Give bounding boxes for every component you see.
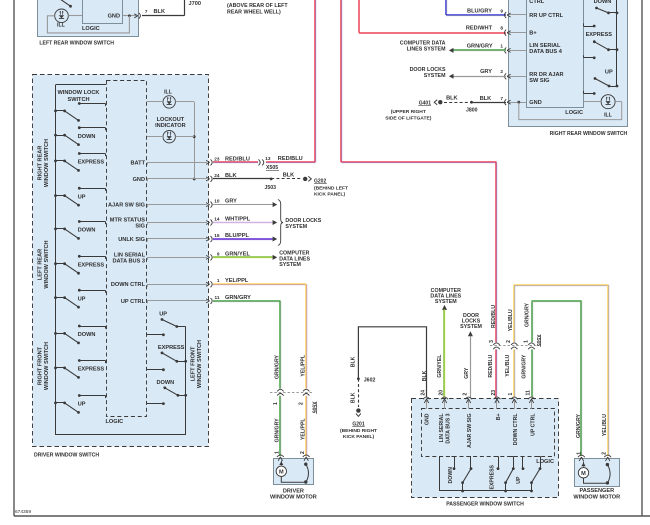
svg-text:WINDOW MOTOR: WINDOW MOTOR <box>573 494 620 500</box>
svg-text:3: 3 <box>489 340 495 343</box>
svg-text:SIDE OF LIFTGATE): SIDE OF LIFTGATE) <box>385 115 431 121</box>
svg-text:7: 7 <box>500 96 503 101</box>
svg-text:SWITCH: SWITCH <box>67 97 89 103</box>
svg-text:LOCKOUT: LOCKOUT <box>157 117 185 123</box>
svg-text:X505: X505 <box>535 335 541 347</box>
svg-text:11: 11 <box>525 390 531 396</box>
svg-text:SYSTEM: SYSTEM <box>424 73 446 79</box>
svg-text:1: 1 <box>524 340 530 343</box>
svg-text:DOWN: DOWN <box>78 332 96 338</box>
svg-text:PASSENGER: PASSENGER <box>579 488 614 494</box>
svg-text:YEL/PPL: YEL/PPL <box>300 354 306 376</box>
svg-text:BLK: BLK <box>283 173 295 179</box>
svg-text:RIGHT REAR WINDOW SWITCH: RIGHT REAR WINDOW SWITCH <box>550 131 628 137</box>
svg-text:EXPRESS: EXPRESS <box>586 32 613 38</box>
svg-text:1: 1 <box>508 393 514 396</box>
svg-text:EXPRESS: EXPRESS <box>158 345 185 351</box>
svg-text:9: 9 <box>217 251 220 256</box>
svg-text:20: 20 <box>438 390 444 396</box>
svg-text:SYSTEM: SYSTEM <box>279 262 301 268</box>
svg-text:YEL/BLU: YEL/BLU <box>505 354 511 376</box>
svg-text:ILL: ILL <box>604 113 613 119</box>
svg-text:EXPRESS: EXPRESS <box>78 263 105 269</box>
svg-text:YEL/BLU: YEL/BLU <box>508 309 514 331</box>
svg-text:9: 9 <box>500 8 503 13</box>
svg-text:WINDOW LOCK: WINDOW LOCK <box>58 90 100 96</box>
svg-text:(BEHIND LEFT: (BEHIND LEFT <box>314 186 348 192</box>
svg-text:23: 23 <box>214 156 220 161</box>
svg-text:GRN/YEL: GRN/YEL <box>437 354 443 378</box>
svg-text:DATA BUS 3: DATA BUS 3 <box>445 413 451 443</box>
svg-text:UP: UP <box>78 402 86 408</box>
svg-text:GRN/GRY: GRN/GRY <box>275 354 281 379</box>
svg-text:SYSTEM: SYSTEM <box>460 324 482 330</box>
svg-text:(BEHIND RIGHT: (BEHIND RIGHT <box>340 428 377 434</box>
svg-text:674359: 674359 <box>15 509 31 515</box>
svg-text:24: 24 <box>214 173 220 178</box>
svg-text:INDICATOR: INDICATOR <box>155 123 186 129</box>
svg-text:SW SIG: SW SIG <box>529 78 549 84</box>
svg-text:GRN/GRY: GRN/GRY <box>525 302 531 327</box>
svg-text:2: 2 <box>299 402 305 405</box>
svg-text:GND: GND <box>529 100 541 106</box>
svg-text:YEL/PPL: YEL/PPL <box>300 418 306 440</box>
svg-text:RED/BLU: RED/BLU <box>488 354 494 377</box>
svg-text:RIGHT FRONT: RIGHT FRONT <box>38 346 44 385</box>
svg-text:DOWN: DOWN <box>157 380 175 386</box>
svg-text:DRIVER WINDOW SWITCH: DRIVER WINDOW SWITCH <box>34 452 99 458</box>
svg-text:LOGIC: LOGIC <box>82 26 100 32</box>
svg-text:2: 2 <box>602 452 608 455</box>
svg-text:AJAR SW SIG: AJAR SW SIG <box>108 203 145 209</box>
svg-text:DOWN: DOWN <box>78 228 96 234</box>
svg-text:GRN/GRY: GRN/GRY <box>467 43 493 49</box>
svg-text:WINDOW MOTOR: WINDOW MOTOR <box>270 495 317 501</box>
svg-text:B+: B+ <box>496 414 502 421</box>
svg-text:GND: GND <box>108 14 120 20</box>
svg-text:BLU/PPL: BLU/PPL <box>225 233 250 239</box>
svg-text:SYSTEM: SYSTEM <box>435 299 457 305</box>
svg-text:BLK: BLK <box>154 9 166 15</box>
svg-text:RED/BLU: RED/BLU <box>278 156 303 162</box>
svg-text:RED/WHT: RED/WHT <box>466 25 493 31</box>
svg-text:GND: GND <box>133 177 145 183</box>
svg-text:7: 7 <box>145 9 148 14</box>
svg-text:1: 1 <box>500 43 503 48</box>
svg-text:YEL/BLU: YEL/BLU <box>602 414 608 436</box>
svg-text:BLK: BLK <box>351 356 357 367</box>
svg-text:11: 11 <box>215 295 220 300</box>
svg-text:WINDOW SWITCH: WINDOW SWITCH <box>197 340 203 388</box>
svg-text:BLK: BLK <box>351 392 357 403</box>
svg-text:UNLK SIG: UNLK SIG <box>118 237 145 243</box>
svg-text:15: 15 <box>214 233 220 238</box>
svg-text:GND: GND <box>425 413 431 425</box>
svg-text:J700: J700 <box>189 1 201 7</box>
svg-text:(UPPER RIGHT: (UPPER RIGHT <box>391 109 426 115</box>
svg-text:X505: X505 <box>311 402 317 414</box>
svg-text:14: 14 <box>214 216 220 221</box>
svg-text:2: 2 <box>500 69 503 74</box>
svg-text:DOWN: DOWN <box>448 467 454 484</box>
svg-text:UP: UP <box>605 69 613 75</box>
svg-text:DATA BUS 3: DATA BUS 3 <box>112 259 145 265</box>
svg-text:G201: G201 <box>352 422 364 428</box>
svg-text:LEFT REAR WINDOW SWITCH: LEFT REAR WINDOW SWITCH <box>39 41 114 47</box>
svg-text:UP: UP <box>516 476 522 484</box>
svg-text:EXPRESS: EXPRESS <box>78 160 105 166</box>
svg-text:EXPRESS: EXPRESS <box>490 464 496 489</box>
svg-text:UP: UP <box>78 296 86 302</box>
svg-text:BLU/GRY: BLU/GRY <box>467 8 492 14</box>
svg-text:REAR WHEEL WELL): REAR WHEEL WELL) <box>227 10 281 16</box>
svg-text:LEFT REAR: LEFT REAR <box>38 249 44 280</box>
svg-text:1: 1 <box>576 452 582 455</box>
svg-text:2: 2 <box>300 451 306 454</box>
svg-text:GRN/GRY: GRN/GRY <box>275 418 281 443</box>
svg-text:(ABOVE REAR OF LEFT: (ABOVE REAR OF LEFT <box>227 3 288 9</box>
svg-text:BLK: BLK <box>422 370 428 381</box>
svg-text:SYSTEM: SYSTEM <box>285 224 307 230</box>
svg-text:J800: J800 <box>466 107 478 113</box>
svg-text:WINDOW SWITCH: WINDOW SWITCH <box>44 240 50 288</box>
svg-text:BATT: BATT <box>131 160 146 166</box>
svg-text:2: 2 <box>506 340 512 343</box>
svg-text:1: 1 <box>273 402 279 405</box>
svg-text:EXPRESS: EXPRESS <box>78 367 105 373</box>
svg-text:LINES SYSTEM: LINES SYSTEM <box>407 46 446 52</box>
svg-text:GRY: GRY <box>464 367 470 379</box>
svg-text:13: 13 <box>265 156 271 161</box>
svg-text:1: 1 <box>274 451 280 454</box>
svg-text:LOGIC: LOGIC <box>565 110 583 116</box>
svg-text:UP: UP <box>159 311 167 317</box>
svg-text:KICK PANEL): KICK PANEL) <box>343 434 375 440</box>
svg-text:UP CTRL: UP CTRL <box>121 299 146 305</box>
svg-text:DRIVER: DRIVER <box>283 488 304 494</box>
svg-text:1: 1 <box>217 278 220 283</box>
svg-text:RIGHT REAR: RIGHT REAR <box>38 146 44 181</box>
svg-text:KICK PANEL): KICK PANEL) <box>314 192 346 198</box>
svg-text:BLK: BLK <box>480 96 492 102</box>
svg-text:GRY: GRY <box>480 69 492 75</box>
svg-text:GRN/GRY: GRN/GRY <box>225 295 251 301</box>
svg-text:DOWN CTRL: DOWN CTRL <box>513 413 519 446</box>
svg-text:AJAR SW SIG: AJAR SW SIG <box>467 414 473 448</box>
svg-text:GRY: GRY <box>225 199 237 205</box>
svg-text:GRN/GRY: GRN/GRY <box>522 354 528 379</box>
svg-text:LOGIC: LOGIC <box>536 459 554 465</box>
svg-text:LIN SERIAL: LIN SERIAL <box>439 413 445 443</box>
svg-text:LEFT FRONT: LEFT FRONT <box>191 346 197 381</box>
svg-text:M: M <box>279 470 284 476</box>
svg-text:DOWN: DOWN <box>594 0 612 5</box>
svg-text:SIG: SIG <box>135 224 145 230</box>
svg-text:ILL: ILL <box>57 22 66 28</box>
svg-text:DOWN: DOWN <box>78 134 96 140</box>
svg-text:GRN/GRY: GRN/GRY <box>576 413 582 438</box>
svg-text:23: 23 <box>491 390 497 396</box>
svg-text:8: 8 <box>500 25 503 30</box>
svg-text:J602: J602 <box>364 377 376 383</box>
svg-text:WINDOW SWITCH: WINDOW SWITCH <box>44 139 50 187</box>
svg-text:10: 10 <box>214 199 220 204</box>
svg-text:2: 2 <box>462 393 468 396</box>
svg-text:RED/BLU: RED/BLU <box>491 305 497 328</box>
svg-text:RR UP CTRL: RR UP CTRL <box>529 13 563 19</box>
svg-text:24: 24 <box>420 390 426 396</box>
svg-text:BLK: BLK <box>446 95 458 101</box>
svg-text:DATA BUS 4: DATA BUS 4 <box>529 49 562 55</box>
svg-text:WINDOW SWITCH: WINDOW SWITCH <box>44 342 50 390</box>
svg-text:LOGIC: LOGIC <box>106 419 124 425</box>
svg-text:B+: B+ <box>529 31 537 37</box>
svg-text:J503: J503 <box>265 185 277 191</box>
svg-text:M: M <box>581 471 586 477</box>
svg-text:PASSENGER WINDOW SWITCH: PASSENGER WINDOW SWITCH <box>446 501 524 507</box>
svg-text:ILL: ILL <box>164 90 173 96</box>
svg-text:DOWN CTRL: DOWN CTRL <box>111 282 146 288</box>
svg-text:UP: UP <box>78 194 86 200</box>
svg-text:CTRL: CTRL <box>529 0 544 5</box>
svg-text:UP CTRL: UP CTRL <box>530 413 536 436</box>
